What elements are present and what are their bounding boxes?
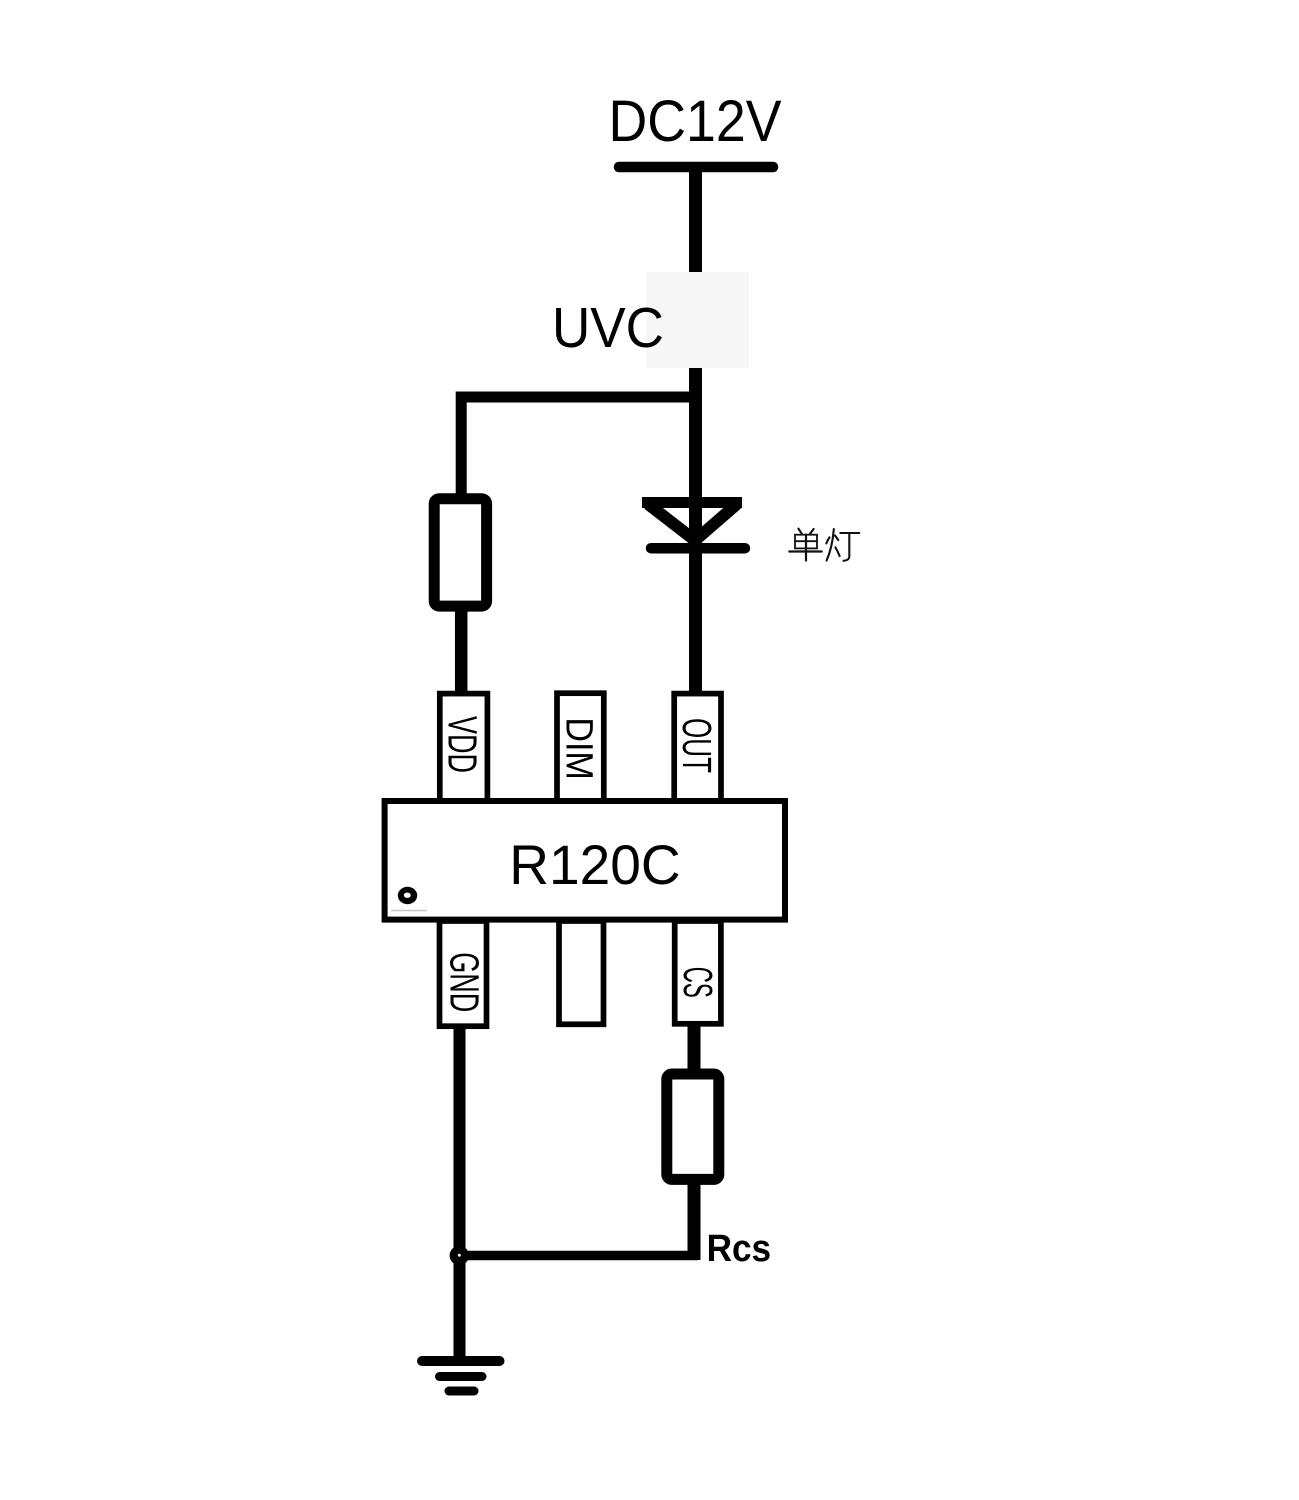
wire: UVC branch (horizontal + down to resistor R1) (461, 397, 695, 500)
wire: R1 to VDD pin (455, 606, 468, 700)
svg-text:OUT: OUT (674, 718, 720, 773)
junction node dot (450, 1246, 469, 1265)
svg-text:R120C: R120C (509, 833, 680, 896)
pin OUT (674, 694, 721, 804)
svg-text:DIM: DIM (557, 717, 599, 779)
diode D1 triangle (642, 503, 742, 541)
diode D1 cathode bar (651, 543, 745, 554)
pin (unlabeled bottom middle) (559, 921, 604, 1024)
svg-text:GND: GND (442, 952, 488, 1012)
resistor Rcs (667, 1074, 719, 1179)
pin GND (440, 921, 487, 1026)
pin VDD (440, 694, 488, 804)
svg-text:CS: CS (675, 967, 721, 998)
ground symbol (422, 1361, 500, 1391)
wire: CS pin to resistor Rcs (688, 1023, 701, 1074)
svg-text:Rcs: Rcs (707, 1228, 772, 1270)
wire: GND pin to ground (454, 1026, 466, 1361)
svg-text:DC12V: DC12V (609, 89, 782, 154)
IC U1 pin-1 marker dot (398, 887, 417, 904)
label 单灯 (single lamp) (789, 529, 859, 561)
pin DIM (557, 693, 604, 803)
wire: Rcs to junction (688, 1179, 701, 1260)
faint watermark remnant (646, 272, 749, 368)
svg-text:VDD: VDD (439, 716, 485, 773)
IC U1 body (385, 801, 785, 920)
wire: supply down through diode to OUT pin (689, 167, 702, 700)
supply terminal bar (619, 162, 773, 173)
svg-text:UVC: UVC (552, 296, 664, 360)
pin CS (675, 921, 721, 1024)
IC U1 faint underline mark (391, 910, 427, 912)
resistor R1 (434, 499, 486, 606)
